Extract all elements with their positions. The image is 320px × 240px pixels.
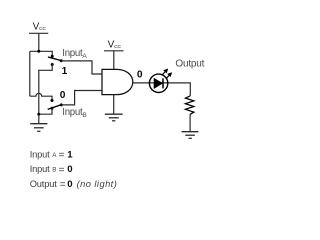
node junction Vcc rail (37, 50, 40, 53)
wire hop over to switch B top (30, 93, 52, 100)
LED D1 (149, 69, 172, 93)
wire switch B bottom contact to ground junction (39, 108, 52, 114)
AND gate U1 (102, 69, 133, 94)
svg-text:1: 1 (62, 66, 68, 77)
svg-text:Output: Output (175, 59, 204, 70)
wire junction down to ground (38, 114, 40, 123)
LED anode triangle (154, 79, 162, 89)
resistor R1 (185, 96, 194, 114)
wire switch A bottom contact to ground rail (39, 65, 52, 115)
wire gate output to LED and resistor (133, 83, 191, 96)
LED light arrow 2 (166, 75, 170, 79)
switch A bottom contact (51, 63, 54, 66)
wire resistor to ground (189, 114, 191, 131)
node junction ground rail (37, 113, 40, 116)
switch A top contact (51, 55, 54, 58)
ground gate (105, 114, 123, 121)
svg-text:0: 0 (60, 90, 66, 101)
wire switch A pole to gate input A (61, 61, 102, 74)
wire switch B pole to gate input B (61, 91, 102, 105)
LED circle (149, 74, 167, 92)
switch A pole (60, 59, 63, 62)
wire gate bottom to ground (113, 95, 115, 114)
switch B bottom contact (51, 107, 54, 110)
switch B top contact (51, 99, 54, 102)
switch B pole (60, 103, 63, 106)
svg-text:0: 0 (137, 69, 143, 80)
power symbol VCC gate (104, 51, 124, 70)
ground resistor (182, 132, 199, 139)
wire left rail down (29, 51, 31, 96)
switch B lever (48, 105, 62, 110)
power symbol VCC left (29, 33, 48, 51)
wire junction to switch A top (30, 51, 52, 56)
LED light arrow 1 (162, 71, 166, 76)
LED cathode bar (162, 78, 164, 88)
switch A lever (48, 57, 61, 61)
switch SW-A (Input A, position 1) (48, 55, 63, 66)
switch SW-B (Input B, position 0) (48, 99, 63, 110)
ground left (30, 124, 47, 132)
